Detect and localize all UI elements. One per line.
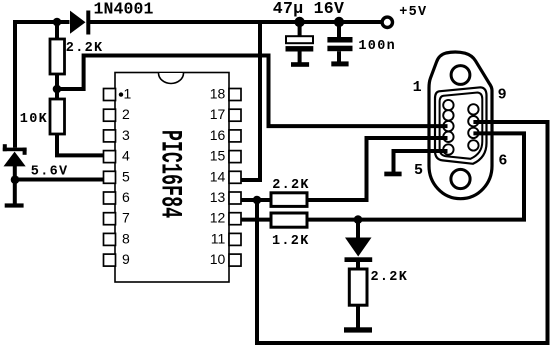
svg-text:9: 9 bbox=[498, 87, 507, 104]
svg-text:9: 9 bbox=[122, 251, 130, 267]
svg-text:1.2K: 1.2K bbox=[272, 234, 310, 249]
svg-text:12: 12 bbox=[210, 210, 226, 226]
node junction top of R1 bbox=[53, 18, 62, 27]
resistor R5 2.2K bottom bbox=[349, 269, 367, 305]
pin 17 square bbox=[229, 109, 241, 121]
diode D3 bbox=[345, 238, 373, 263]
pin 9 square bbox=[104, 254, 116, 266]
svg-text:1: 1 bbox=[124, 86, 132, 102]
node junction R1/R2 bbox=[53, 85, 62, 94]
wire R1 top lead bbox=[55, 22, 59, 40]
pin 1 square bbox=[104, 89, 116, 101]
ground below zener bbox=[5, 203, 24, 207]
terminal +5V circle bbox=[382, 17, 392, 27]
pin 4 square bbox=[104, 151, 116, 163]
connector pin 5 circle bbox=[443, 144, 453, 154]
svg-text:5: 5 bbox=[414, 162, 423, 179]
wire junction to DB9 pin 3 (TxD) bbox=[57, 56, 448, 127]
pin 11 square bbox=[229, 233, 241, 245]
svg-text:17: 17 bbox=[210, 106, 226, 122]
svg-text:+5V: +5V bbox=[399, 5, 427, 20]
wire pin 13 to DB9 pin 8 (CTS) bbox=[257, 122, 548, 343]
pin 7 square bbox=[104, 213, 116, 225]
svg-text:1N4001: 1N4001 bbox=[94, 0, 154, 19]
wire +5V rail right segment bbox=[90, 20, 381, 24]
svg-text:10: 10 bbox=[210, 251, 226, 267]
svg-text:47µ 16V: 47µ 16V bbox=[273, 0, 344, 18]
wire PIC pin 12 to R4 bbox=[241, 218, 272, 222]
connector pin 4 circle bbox=[443, 132, 453, 142]
wire R4 to DB9 pin 7 (RTS) bbox=[307, 133, 524, 219]
svg-text:15: 15 bbox=[210, 148, 226, 164]
svg-text:10K: 10K bbox=[20, 112, 48, 127]
pin 6 square bbox=[104, 192, 116, 204]
svg-text:16: 16 bbox=[210, 127, 226, 143]
pin 1 dot bbox=[119, 92, 123, 96]
svg-text:5.6V: 5.6V bbox=[31, 164, 69, 179]
resistor R2 10K bbox=[50, 99, 65, 134]
wire R5 to ground bbox=[356, 305, 360, 328]
resistor R3 2.2K bbox=[271, 193, 307, 207]
svg-text:100n: 100n bbox=[358, 39, 396, 54]
ground below R5 bbox=[344, 327, 372, 332]
ground below C2 bbox=[331, 61, 348, 66]
svg-text:2.2K: 2.2K bbox=[272, 178, 310, 193]
wire zener junction to PIC pin 5 bbox=[15, 178, 104, 182]
wire junction to D3 bbox=[356, 220, 360, 238]
wire zener to ground bbox=[13, 165, 17, 204]
svg-text:2: 2 bbox=[122, 106, 130, 122]
D-shell outer outline bbox=[435, 87, 487, 164]
pin 14 square bbox=[229, 171, 241, 183]
svg-text:4: 4 bbox=[122, 148, 130, 164]
svg-text:2.2K: 2.2K bbox=[371, 270, 409, 285]
pin 5 square bbox=[104, 171, 116, 183]
wire R3 to DB9 pin 4 bbox=[307, 138, 448, 200]
IC U1 PIC16F84 body bbox=[115, 73, 229, 283]
svg-text:8: 8 bbox=[122, 230, 130, 246]
pin 3 square bbox=[104, 130, 116, 142]
connector pin 9 circle bbox=[468, 104, 478, 114]
pin 10 square bbox=[229, 254, 241, 266]
mounting hole bottom bbox=[451, 169, 470, 188]
node junction C1 bbox=[294, 17, 304, 27]
pin 15 square bbox=[229, 151, 241, 163]
svg-text:18: 18 bbox=[210, 86, 226, 102]
wire R2 bottom to PIC pin 4 bbox=[57, 134, 104, 155]
pin 13 square bbox=[229, 192, 241, 204]
capacitor C1 47u electrolytic bbox=[286, 22, 314, 63]
ground DB9 pin 5 bbox=[384, 172, 401, 177]
svg-text:5: 5 bbox=[122, 168, 130, 184]
connector pin 1 circle bbox=[443, 100, 453, 110]
ground below C1 bbox=[291, 62, 309, 67]
pin 12 square bbox=[229, 213, 241, 225]
svg-text:3: 3 bbox=[122, 127, 130, 143]
wire R1 bottom to R2 top bbox=[55, 74, 59, 100]
svg-text:14: 14 bbox=[210, 168, 226, 184]
node junction pin 13 bbox=[253, 196, 262, 205]
connector pin 7 circle bbox=[468, 128, 478, 138]
resistor R1 2.2K bbox=[50, 39, 65, 74]
svg-text:PIC16F84: PIC16F84 bbox=[153, 130, 187, 218]
connector pin 2 circle bbox=[443, 110, 453, 120]
svg-text:1: 1 bbox=[413, 79, 422, 96]
svg-text:6: 6 bbox=[122, 189, 130, 205]
connector J1 DB9 shell bbox=[429, 52, 492, 199]
pin 2 square bbox=[104, 109, 116, 121]
wire +5V rail left segment and left vertical bbox=[15, 22, 70, 148]
node junction D3 bbox=[354, 215, 363, 224]
wire DB9 pin 5 to ground bbox=[394, 151, 448, 172]
connector pin 8 circle bbox=[468, 116, 478, 126]
connector pin 6 circle bbox=[468, 140, 478, 150]
svg-text:11: 11 bbox=[211, 230, 226, 246]
pin 8 square bbox=[104, 233, 116, 245]
svg-text:7: 7 bbox=[122, 210, 130, 226]
node junction below zener bbox=[11, 175, 20, 184]
zener diode D2 5.6V bbox=[3, 144, 27, 166]
svg-text:6: 6 bbox=[498, 152, 507, 169]
D-shell inner outline bbox=[440, 93, 483, 159]
pin 16 square bbox=[229, 130, 241, 142]
mounting hole top bbox=[451, 66, 470, 85]
diode D1 1N4001 bbox=[70, 11, 90, 35]
wire D3 to R5 bbox=[356, 261, 360, 270]
node junction C2 bbox=[334, 17, 344, 27]
capacitor C2 100n bbox=[327, 22, 352, 62]
wire PIC pin 13 to R3 bbox=[241, 198, 272, 202]
svg-text:13: 13 bbox=[210, 189, 226, 205]
connector pin 3 circle bbox=[443, 121, 453, 131]
resistor R4 1.2K bbox=[271, 213, 307, 227]
wire +5V to PIC pin 14 bbox=[241, 22, 261, 180]
pin 18 square bbox=[229, 89, 241, 101]
